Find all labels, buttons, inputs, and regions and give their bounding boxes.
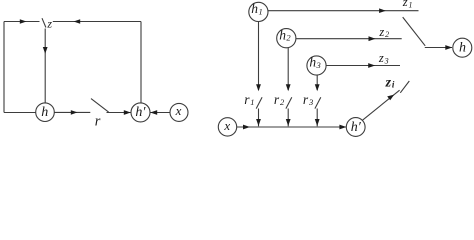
label r2 xyxy=(274,92,285,107)
label z1 xyxy=(402,0,413,9)
arrowhead right on bus near x xyxy=(243,125,250,130)
label h2 xyxy=(279,27,291,42)
label h right xyxy=(459,41,466,56)
wire z2 output xyxy=(296,38,402,40)
node x right xyxy=(218,118,236,136)
wire r2 upper xyxy=(287,48,289,90)
switch lever top right xyxy=(403,17,426,46)
arrowhead down r2 lower xyxy=(286,119,291,126)
bus wire x to h' right xyxy=(237,126,347,128)
label h' right xyxy=(351,120,362,135)
arrowhead right into node h xyxy=(445,45,452,50)
svg-text:x: x xyxy=(175,103,182,118)
label h3 xyxy=(309,55,320,70)
node h1 xyxy=(249,2,268,21)
wire top feedback right segment xyxy=(53,21,141,23)
node h' right xyxy=(346,118,365,137)
svg-text:r1: r1 xyxy=(244,92,254,107)
wire x to h' xyxy=(150,112,170,114)
arrowhead down r2 upper xyxy=(286,84,291,91)
node h right xyxy=(453,38,472,57)
arrowhead left on top-right wire xyxy=(74,19,81,24)
arrowhead down r1 lower xyxy=(256,119,261,126)
wire bottom-left into node h xyxy=(4,112,36,114)
svg-text:h′: h′ xyxy=(351,120,362,135)
switch z lever xyxy=(42,18,46,27)
label r xyxy=(95,114,101,130)
wire r3 upper xyxy=(316,75,318,90)
node h' xyxy=(131,103,150,122)
wire left vertical xyxy=(3,22,5,113)
svg-text:z3: z3 xyxy=(378,51,389,65)
arrowhead left into h' xyxy=(150,110,157,115)
svg-text:r3: r3 xyxy=(303,92,313,107)
label h1 xyxy=(251,1,262,16)
arrowhead right on top-left wire xyxy=(20,19,27,24)
svg-text:r2: r2 xyxy=(274,92,285,107)
wire into node h right xyxy=(425,47,452,49)
wire r3 lower xyxy=(316,109,318,127)
label zi xyxy=(385,75,395,90)
node x xyxy=(170,103,188,121)
label r3 xyxy=(303,92,313,107)
arrowhead right into h' xyxy=(124,110,131,115)
wire switch z down into node h xyxy=(44,29,46,103)
wire right vertical from top to node h' xyxy=(140,22,142,104)
arrowhead right on z2 wire xyxy=(369,36,376,41)
wire r1 upper xyxy=(258,22,260,90)
label h' xyxy=(135,105,146,120)
svg-text:r: r xyxy=(95,114,101,130)
svg-text:z: z xyxy=(46,17,52,31)
svg-text:h: h xyxy=(459,41,466,56)
label h xyxy=(41,105,48,120)
wire h' to switch zi xyxy=(362,90,399,120)
label x xyxy=(175,103,182,118)
svg-text:zi: zi xyxy=(385,75,395,90)
label x right xyxy=(223,118,230,133)
label z2 xyxy=(378,25,389,39)
wire top feedback left segment xyxy=(4,21,40,23)
arrowhead down r3 upper xyxy=(315,84,320,91)
node h xyxy=(36,103,55,122)
wire r2 lower xyxy=(287,109,289,127)
switch r1 lever xyxy=(256,97,262,108)
wire switch r to node h' xyxy=(107,112,131,114)
svg-text:z2: z2 xyxy=(378,25,389,39)
arrowhead down r1 upper xyxy=(256,84,261,91)
svg-text:h: h xyxy=(41,105,48,120)
switch r3 lever xyxy=(315,97,321,108)
arrowhead up-right on zi wire xyxy=(387,95,394,101)
arrowhead right on z1 wire xyxy=(379,8,386,13)
wire r1 lower xyxy=(258,109,260,127)
label r1 xyxy=(244,92,254,107)
label z xyxy=(46,17,52,31)
wire z1 output xyxy=(268,10,419,12)
switch r2 lever xyxy=(286,97,292,108)
svg-text:h′: h′ xyxy=(135,105,146,120)
switch r lever xyxy=(91,99,109,113)
svg-text:x: x xyxy=(223,118,230,133)
node h3 xyxy=(307,56,326,75)
wire z3 output xyxy=(326,65,400,67)
wire h to switch r xyxy=(54,111,90,113)
svg-text:z1: z1 xyxy=(402,0,413,9)
arrowhead right into h' right xyxy=(339,125,346,130)
arrowhead right on z3 wire xyxy=(368,63,375,68)
arrowhead down r3 lower xyxy=(315,119,320,126)
node h2 xyxy=(277,29,296,48)
label z3 xyxy=(378,51,389,65)
arrowhead down on z wire xyxy=(43,47,48,54)
arrowhead right on h-r wire xyxy=(71,110,78,115)
switch zi lever xyxy=(400,81,409,93)
